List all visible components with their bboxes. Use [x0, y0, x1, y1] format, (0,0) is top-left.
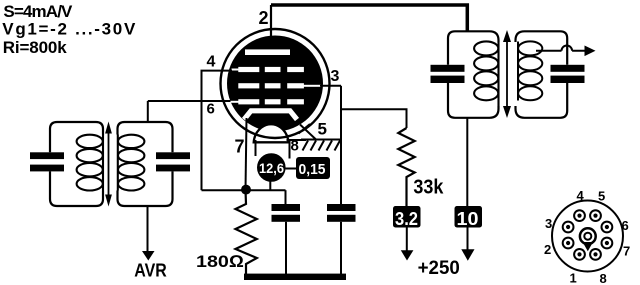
- svg-text:3: 3: [545, 216, 552, 231]
- svg-text:8: 8: [291, 138, 299, 155]
- wire pin 5 lead with cross: [299, 124, 317, 140]
- svg-text:3.2: 3.2: [395, 209, 418, 229]
- wire cathode junction rail: [202, 189, 286, 191]
- wire input tank right box outline: [118, 122, 173, 206]
- svg-text:33k: 33k: [413, 177, 444, 199]
- svg-text:7: 7: [235, 137, 245, 157]
- value label 12,6 (heater volts, inverted circle): [257, 153, 286, 182]
- inductor L1 input primary winding: [77, 135, 103, 191]
- grid g (middle row, white dashes): [238, 83, 321, 88]
- wire anode top rail: [271, 5, 467, 31]
- wire cathode lead pin 7: [246, 118, 247, 190]
- socket pin 2: [563, 238, 574, 249]
- svg-text:4: 4: [207, 54, 216, 71]
- resistor 180 ohm (cathode): [236, 190, 257, 274]
- socket pin 5: [590, 210, 601, 221]
- socket pin 1: [574, 249, 585, 260]
- svg-text:5: 5: [598, 189, 605, 204]
- svg-text:12,6: 12,6: [259, 161, 284, 176]
- wire output tank left box outline: [448, 31, 499, 118]
- svg-text:S=4mA/V: S=4mA/V: [3, 2, 73, 21]
- wire pin 3 lead (screen): [320, 85, 341, 87]
- wire output transformer B+ feed: [466, 118, 468, 206]
- grid g (bottom row, white dashes): [231, 99, 304, 104]
- svg-text:4: 4: [577, 188, 585, 203]
- value label 3.2 (inverted box): [393, 206, 421, 229]
- wire link 12,6 to 0,15: [286, 168, 297, 170]
- socket pin 7: [602, 238, 613, 249]
- wire output tap with crossover hop and arrow: [536, 46, 596, 57]
- capacitor C5 (output primary tuning): [431, 65, 465, 83]
- wire arrow below 3.2 to +250: [401, 228, 414, 261]
- wire grid return vertical (pin 4 down to cathode junction): [201, 71, 203, 191]
- capacitor C2 (input secondary tuning): [156, 152, 190, 171]
- svg-text:180Ω: 180Ω: [196, 252, 244, 271]
- inductor L3 output primary winding: [474, 41, 498, 106]
- svg-text:AVR: AVR: [134, 261, 167, 281]
- svg-text:10: 10: [457, 209, 479, 229]
- wire output tank right box outline: [516, 31, 568, 118]
- wire grid input line (transformer to pin 6): [148, 101, 232, 122]
- svg-text:7: 7: [623, 244, 630, 259]
- socket pin 4: [574, 210, 585, 221]
- chassis ground (hatched): [301, 140, 341, 151]
- value label 10 (inverted box): [455, 206, 483, 229]
- wire pin 8 tie to chassis: [287, 139, 307, 141]
- svg-text:0,15: 0,15: [299, 161, 326, 178]
- socket center spigot with key: [580, 228, 596, 251]
- wire heater left leg: [255, 140, 257, 156]
- tube internal black disc: [227, 36, 323, 132]
- svg-text:2: 2: [544, 242, 551, 257]
- svg-text:6: 6: [622, 218, 629, 233]
- wire input tank left box outline: [50, 122, 103, 206]
- heater filament dome: [254, 124, 289, 142]
- svg-text:1: 1: [570, 271, 577, 285]
- resistor 33k: [398, 128, 414, 206]
- wire heater right leg: [289, 140, 291, 159]
- capacitor C4 (screen bypass): [327, 86, 356, 274]
- svg-text:2: 2: [259, 8, 269, 28]
- cathode (white bent bar): [244, 111, 297, 120]
- svg-text:+250: +250: [418, 258, 460, 279]
- svg-text:5: 5: [318, 120, 327, 139]
- wire arrow below 10 to +250: [461, 228, 474, 261]
- tube V1 pentode: [221, 29, 330, 142]
- socket pin 3: [563, 222, 574, 233]
- capacitor C6 (output secondary tuning): [551, 65, 585, 83]
- wire AVR lead with arrow: [142, 206, 155, 261]
- value label 0,15 (heater amps, inverted box): [296, 157, 330, 179]
- grid g (top row, white dashes): [232, 67, 304, 72]
- socket outline (base view): [552, 201, 623, 272]
- svg-text:Vg1=-2 ...-30V: Vg1=-2 ...-30V: [2, 19, 136, 38]
- wire heater down lead: [269, 181, 271, 190]
- inductor L2 input secondary winding: [118, 135, 145, 191]
- svg-text:Ri=800k: Ri=800k: [3, 38, 68, 57]
- tube envelope circle: [221, 29, 330, 138]
- wire pin 4 lead: [201, 70, 233, 72]
- socket pin 6: [602, 222, 613, 233]
- anode plate (white bar): [245, 49, 290, 55]
- coupling adjust arrow input transformer: [105, 122, 112, 207]
- wire anode lead pin 2: [270, 5, 272, 49]
- ground rail (thick bar): [244, 274, 346, 280]
- svg-text:3: 3: [331, 68, 340, 85]
- coupling adjust arrow output transformer: [503, 30, 511, 118]
- node junction dot: [241, 185, 251, 195]
- svg-text:8: 8: [600, 271, 607, 285]
- socket pin 8: [590, 249, 601, 260]
- capacitor C3 (cathode bypass): [272, 190, 301, 274]
- inductor L4 output secondary winding: [518, 41, 542, 100]
- capacitor C1 (input primary tuning): [30, 152, 64, 171]
- svg-text:6: 6: [207, 101, 215, 118]
- wire screen feed to 33k: [341, 109, 407, 128]
